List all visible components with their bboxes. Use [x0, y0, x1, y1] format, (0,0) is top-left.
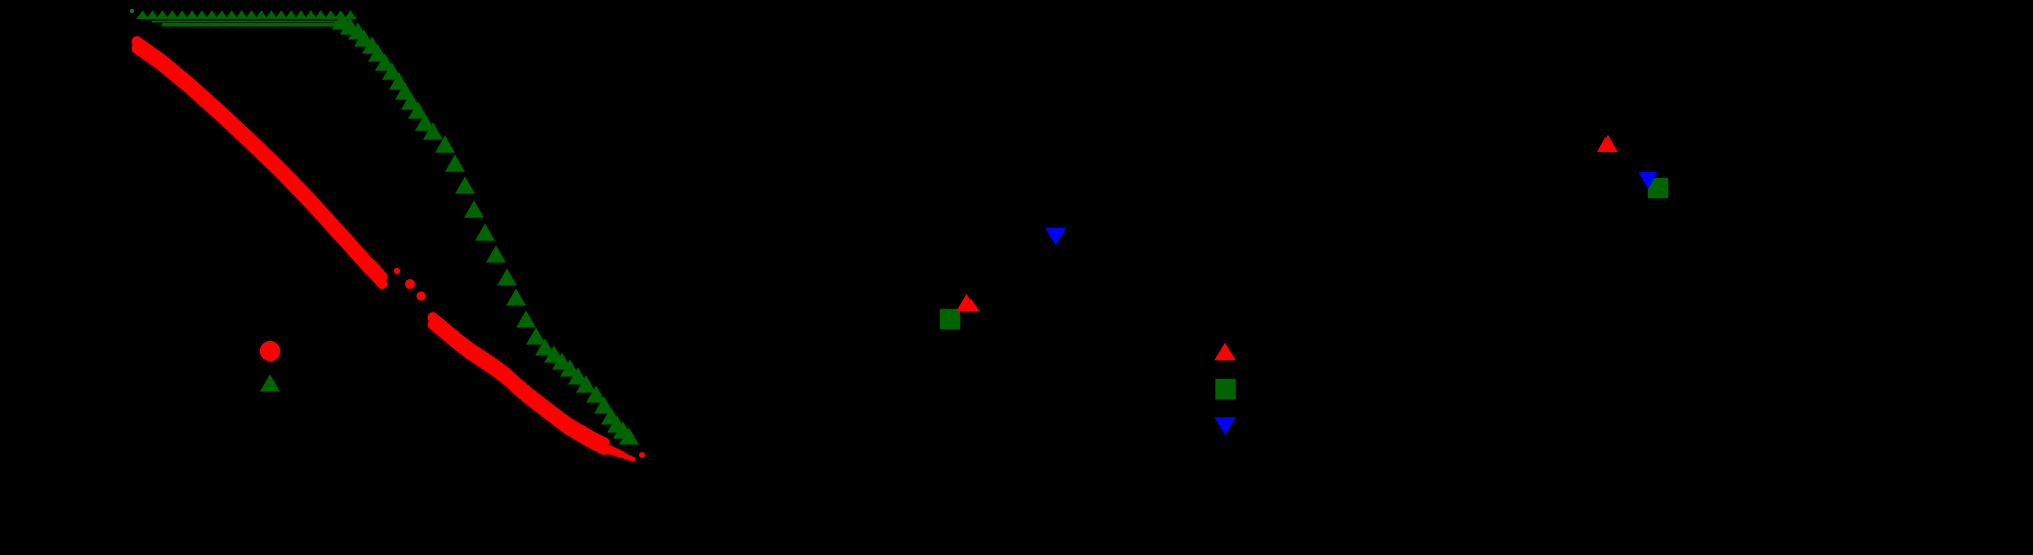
middle panel legend: green square marker [1215, 379, 1236, 400]
left panel: green triangle series descending curve [332, 12, 639, 444]
right panel: red triangle data markers (overlapping pair) [1597, 135, 1618, 152]
right panel: blue inverted-triangle data marker (drawn over square) [1639, 172, 1658, 189]
middle panel legend: red triangle marker [1214, 343, 1236, 360]
middle panel: green square data marker [940, 309, 961, 330]
left panel: green dense band (second green series, thin strip) [152, 21, 362, 36]
left panel: red circle series, dense upper band [132, 36, 388, 289]
left panel legend: red circle marker [260, 341, 280, 361]
middle panel: blue inverted-triangle data markers (overlapping pair) [1045, 228, 1066, 245]
left panel: stray small green marker top-left [130, 9, 134, 13]
left panel: red circle series, sparse mid markers [394, 268, 426, 301]
middle panel legend: blue inverted-triangle marker [1214, 417, 1236, 435]
left panel legend: green triangle marker [260, 374, 280, 391]
left panel: green sawtooth marker row (dense small triangles along top) [136, 10, 357, 19]
middle panel: red triangle data markers (overlapping pair) [957, 294, 980, 311]
right panel: green square data marker [1648, 178, 1669, 199]
left panel: red series tapering tail end [605, 445, 645, 461]
left panel: red circle series, dense lower band [428, 312, 610, 455]
